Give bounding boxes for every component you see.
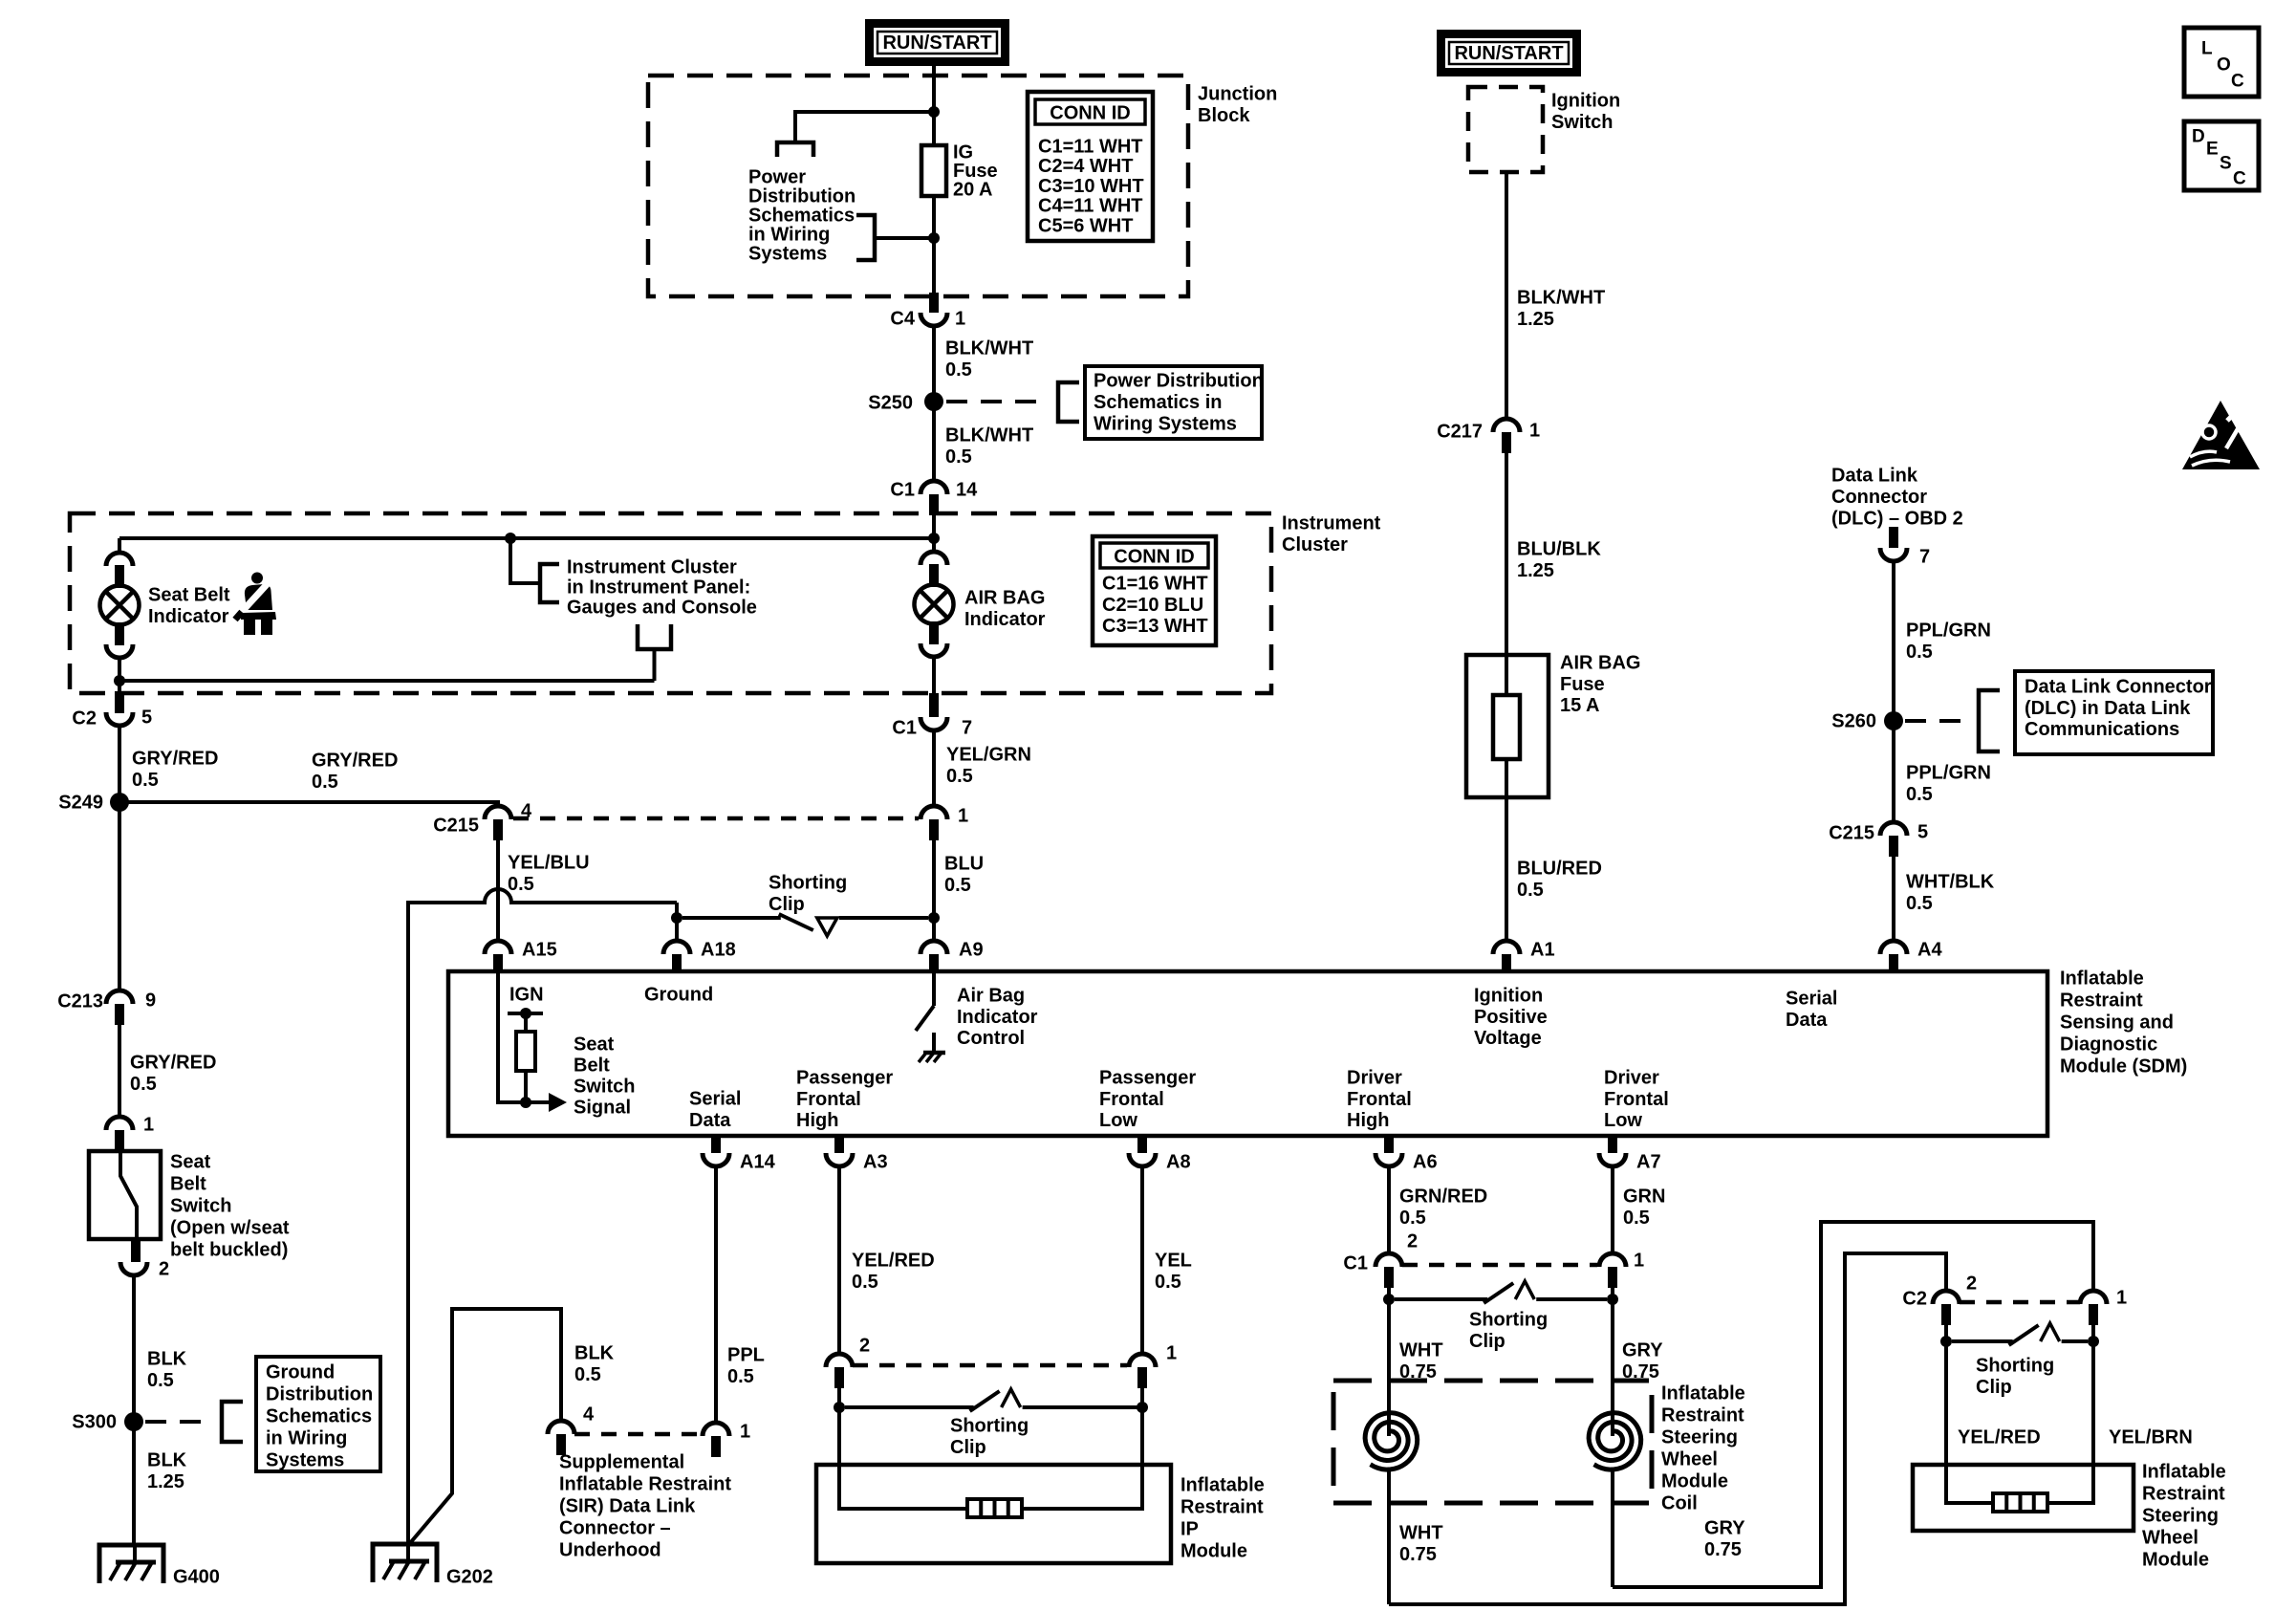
svg-text:WHT/BLK: WHT/BLK bbox=[1906, 872, 1995, 893]
connector C215 pin 1 (air bag lamp circuit) bbox=[921, 806, 947, 819]
shorting clip (wheel module) bbox=[1952, 1339, 2013, 1343]
svg-text:Ignition: Ignition bbox=[1551, 91, 1620, 112]
svg-text:Serial: Serial bbox=[689, 1089, 741, 1110]
svg-text:1: 1 bbox=[1634, 1251, 1644, 1272]
svg-text:1.25: 1.25 bbox=[147, 1471, 184, 1492]
svg-text:Frontal: Frontal bbox=[1347, 1089, 1412, 1110]
svg-text:C2=4 WHT: C2=4 WHT bbox=[1038, 156, 1133, 177]
reference bracket at S260 bbox=[1979, 690, 2000, 751]
svg-text:Systems: Systems bbox=[748, 244, 827, 265]
svg-text:0.5: 0.5 bbox=[944, 875, 971, 896]
node clip junction right (wheel) bbox=[2088, 1336, 2099, 1347]
wire air bag indicator bottom bbox=[932, 657, 936, 693]
svg-text:C215: C215 bbox=[1829, 823, 1874, 844]
svg-text:C2: C2 bbox=[1902, 1289, 1927, 1310]
svg-text:BLU: BLU bbox=[944, 854, 984, 875]
squib (IP module) bbox=[967, 1499, 1022, 1517]
svg-text:C1: C1 bbox=[1343, 1253, 1368, 1274]
svg-text:0.5: 0.5 bbox=[574, 1364, 601, 1385]
svg-text:Fuse: Fuse bbox=[1560, 674, 1605, 695]
wire seat belt indicator bottom to rail bbox=[118, 658, 121, 681]
wire GRN 0.5 (A7 down) bbox=[1611, 1166, 1614, 1253]
dashed reference line from S300 bbox=[145, 1420, 212, 1424]
svg-text:Power Distribution: Power Distribution bbox=[1094, 371, 1264, 392]
svg-text:Indicator: Indicator bbox=[964, 609, 1046, 630]
reference bracket below text (to gauges schematic) bbox=[638, 624, 671, 649]
power label RUN/START (ignition) bbox=[1437, 30, 1581, 76]
svg-text:C1: C1 bbox=[890, 480, 915, 501]
svg-text:5: 5 bbox=[141, 708, 152, 729]
svg-text:Clip: Clip bbox=[769, 894, 805, 915]
svg-text:Frontal: Frontal bbox=[796, 1089, 861, 1110]
svg-text:7: 7 bbox=[1919, 547, 1930, 568]
svg-text:Inflatable: Inflatable bbox=[2142, 1462, 2226, 1483]
svg-text:2: 2 bbox=[1407, 1231, 1418, 1252]
svg-text:BLK: BLK bbox=[147, 1450, 187, 1471]
svg-text:Belt: Belt bbox=[574, 1056, 610, 1077]
connector C1 pin 14 bbox=[921, 481, 947, 494]
svg-text:Voltage: Voltage bbox=[1474, 1028, 1542, 1049]
wire seat belt indicator top bbox=[118, 538, 121, 553]
connector IP module pin 2 bbox=[826, 1354, 853, 1367]
svg-text:Communications: Communications bbox=[2025, 719, 2179, 740]
svg-text:4: 4 bbox=[583, 1404, 595, 1426]
svg-text:Inflatable: Inflatable bbox=[1180, 1475, 1265, 1496]
wire PPL 0.5 (A14 down) bbox=[714, 1166, 718, 1425]
wire pin1 to shorting clip bbox=[1140, 1388, 1144, 1407]
reference bracket (power distribution, top) bbox=[777, 142, 813, 157]
reference bracket (instrument cluster text, left) bbox=[540, 564, 559, 602]
svg-text:Shorting: Shorting bbox=[1469, 1310, 1548, 1331]
connector C213 pin 9 bbox=[106, 991, 133, 1004]
svg-text:Systems: Systems bbox=[266, 1450, 344, 1471]
svg-text:14: 14 bbox=[956, 480, 978, 501]
svg-text:0.5: 0.5 bbox=[1517, 880, 1544, 901]
svg-text:Wheel: Wheel bbox=[2142, 1528, 2199, 1549]
box Power Distribution Schematics in Wiring Systems (S250) bbox=[1085, 366, 1262, 439]
svg-text:G202: G202 bbox=[446, 1567, 493, 1588]
node rail junction at reference tap bbox=[505, 533, 516, 544]
svg-text:A18: A18 bbox=[701, 940, 736, 961]
svg-text:PPL/GRN: PPL/GRN bbox=[1906, 620, 1991, 642]
svg-text:Seat: Seat bbox=[574, 1034, 615, 1056]
shorting clip (IP module) bbox=[845, 1405, 974, 1409]
wire GRY out of coil bbox=[1611, 1470, 1614, 1587]
module Inflatable Restraint Steering Wheel Module box bbox=[1913, 1465, 2134, 1531]
svg-text:Driver: Driver bbox=[1347, 1068, 1402, 1089]
svg-text:Indicator: Indicator bbox=[148, 606, 229, 627]
svg-text:2: 2 bbox=[1966, 1274, 1977, 1295]
svg-text:Inflatable Restraint: Inflatable Restraint bbox=[559, 1474, 731, 1495]
svg-text:C4=11 WHT: C4=11 WHT bbox=[1038, 196, 1142, 217]
svg-text:Clip: Clip bbox=[1469, 1331, 1505, 1352]
svg-text:in Wiring: in Wiring bbox=[266, 1428, 347, 1449]
junction block dashed box bbox=[648, 76, 1188, 296]
svg-text:C: C bbox=[2231, 72, 2244, 92]
wire to clip left (coil) bbox=[1387, 1288, 1391, 1299]
svg-text:Instrument Cluster: Instrument Cluster bbox=[567, 557, 737, 578]
box Data Link Connector (DLC) in Data Link Communications bbox=[2015, 671, 2213, 754]
clockspring coil right bbox=[1589, 1413, 1641, 1469]
connector C215 pin 5 bbox=[1880, 822, 1907, 836]
svg-text:BLK: BLK bbox=[147, 1349, 187, 1370]
svg-text:C5=6 WHT: C5=6 WHT bbox=[1038, 215, 1133, 236]
table CONN ID (instrument cluster) bbox=[1093, 536, 1216, 645]
svg-text:S: S bbox=[2220, 154, 2232, 174]
svg-text:CONN ID: CONN ID bbox=[1050, 103, 1130, 124]
svg-text:Belt: Belt bbox=[170, 1174, 206, 1195]
wire stem from bracket 2 to fuse output bbox=[876, 236, 934, 240]
splice S260 bbox=[1884, 711, 1903, 730]
svg-text:(Open w/seat: (Open w/seat bbox=[170, 1218, 290, 1239]
dashed connector line pin2-pin1 (IP module) bbox=[853, 1363, 1127, 1368]
wire ground run to G202 (horizontal with hump) bbox=[408, 889, 677, 1542]
svg-text:Passenger: Passenger bbox=[1099, 1068, 1196, 1089]
svg-text:0.75: 0.75 bbox=[1704, 1539, 1742, 1560]
svg-text:Ignition: Ignition bbox=[1474, 986, 1543, 1007]
svg-text:Data Link Connector: Data Link Connector bbox=[2025, 677, 2212, 698]
svg-text:YEL/GRN: YEL/GRN bbox=[946, 745, 1031, 766]
node clip junction left (coil) bbox=[1383, 1294, 1395, 1305]
svg-text:A3: A3 bbox=[863, 1152, 888, 1173]
svg-text:Wheel: Wheel bbox=[1661, 1449, 1718, 1470]
svg-text:BLK: BLK bbox=[574, 1343, 615, 1364]
svg-text:Switch: Switch bbox=[1551, 112, 1613, 133]
svg-text:A7: A7 bbox=[1636, 1152, 1661, 1173]
wire into IP module right bbox=[1022, 1407, 1142, 1509]
svg-text:IP: IP bbox=[1180, 1519, 1199, 1540]
svg-text:Passenger: Passenger bbox=[796, 1068, 893, 1089]
wire BLU 0.5 bbox=[932, 840, 936, 941]
wire BLK 0.5 (switch to S300) bbox=[132, 1275, 136, 1422]
svg-text:0.5: 0.5 bbox=[130, 1074, 157, 1095]
wire tap to cluster reference bracket bbox=[510, 538, 540, 583]
svg-text:Distribution: Distribution bbox=[748, 186, 856, 207]
node clip junction right (IP) bbox=[1137, 1402, 1148, 1413]
svg-text:Shorting: Shorting bbox=[950, 1416, 1029, 1437]
wire BLK 0.5 (SIR DLC to G202) bbox=[410, 1309, 561, 1543]
svg-text:Instrument: Instrument bbox=[1282, 513, 1381, 534]
svg-text:1: 1 bbox=[1166, 1343, 1177, 1364]
svg-text:Schematics: Schematics bbox=[748, 206, 855, 227]
wire pin2 to shorting clip bbox=[837, 1388, 841, 1407]
svg-text:S249: S249 bbox=[58, 793, 103, 814]
box Ground Distribution Schematics in Wiring Systems bbox=[256, 1357, 380, 1471]
svg-text:Distribution: Distribution bbox=[266, 1384, 373, 1405]
svg-text:L: L bbox=[2201, 39, 2213, 59]
squib (wheel module) bbox=[1993, 1493, 2047, 1512]
dashed connector line C215 pin4-pin1 bbox=[513, 816, 919, 821]
svg-text:Power: Power bbox=[748, 167, 806, 188]
svg-text:C2: C2 bbox=[72, 708, 97, 729]
svg-text:Supplemental: Supplemental bbox=[559, 1452, 684, 1473]
switch Seat Belt Switch box bbox=[89, 1151, 161, 1239]
svg-text:(DLC) in Data Link: (DLC) in Data Link bbox=[2025, 698, 2191, 719]
icon seat belt person bbox=[235, 573, 276, 636]
svg-text:PPL/GRN: PPL/GRN bbox=[1906, 763, 1991, 784]
splice S300 bbox=[124, 1412, 143, 1431]
svg-text:A14: A14 bbox=[740, 1152, 776, 1173]
module Inflatable Restraint IP Module box bbox=[816, 1465, 1171, 1563]
svg-text:20 A: 20 A bbox=[953, 180, 993, 201]
reference bracket 2 (power distribution, lower) bbox=[856, 215, 875, 260]
svg-text:Steering: Steering bbox=[1661, 1427, 1738, 1448]
svg-text:0.5: 0.5 bbox=[147, 1370, 174, 1391]
connector SIR DLC pin 1 bbox=[703, 1423, 729, 1436]
connector A7 bbox=[1608, 1134, 1617, 1153]
wire GRY 0.75 run to C2 pin 1 bbox=[1613, 1222, 2093, 1587]
svg-text:C1=11 WHT: C1=11 WHT bbox=[1038, 137, 1142, 158]
svg-text:Data Link: Data Link bbox=[1831, 466, 1918, 487]
svg-text:0.5: 0.5 bbox=[1906, 642, 1933, 663]
wire into wheel module left bbox=[1946, 1341, 1993, 1503]
svg-text:Serial: Serial bbox=[1786, 989, 1837, 1010]
svg-text:1: 1 bbox=[740, 1422, 750, 1443]
svg-text:C: C bbox=[2233, 169, 2246, 189]
dashed connector line pin4-pin1 (SIR DLC) bbox=[574, 1432, 703, 1437]
svg-text:GRY/RED: GRY/RED bbox=[132, 749, 218, 770]
lamp Seat Belt Indicator bbox=[106, 553, 133, 566]
svg-text:Driver: Driver bbox=[1604, 1068, 1659, 1089]
node clip junction left (IP) bbox=[834, 1402, 845, 1413]
node clip junction right (coil) bbox=[1607, 1294, 1618, 1305]
splice S250 bbox=[924, 392, 943, 411]
connector C217 pin 1 bbox=[1493, 419, 1520, 432]
svg-text:Restraint: Restraint bbox=[1661, 1405, 1744, 1426]
svg-text:in Instrument Panel:: in Instrument Panel: bbox=[567, 577, 750, 599]
svg-text:Block: Block bbox=[1198, 105, 1250, 126]
wire WHT out of coil bbox=[1387, 1470, 1391, 1604]
shorting clip (coil) bbox=[1395, 1297, 1487, 1301]
svg-text:A9: A9 bbox=[959, 940, 984, 961]
connector A18 bbox=[663, 941, 690, 954]
connector C1 pin 2 (coil) bbox=[1375, 1253, 1402, 1267]
svg-text:High: High bbox=[796, 1110, 838, 1131]
svg-text:GRN/RED: GRN/RED bbox=[1399, 1186, 1487, 1208]
box DESC bbox=[2184, 121, 2259, 190]
wire WHT 0.75 run to C2 pin 2 bbox=[1389, 1253, 1946, 1604]
reference bracket at S300 bbox=[222, 1402, 243, 1442]
connector DLC pin 7 bbox=[1889, 527, 1898, 548]
wire BLU/RED 0.5 bbox=[1505, 797, 1508, 941]
svg-text:1: 1 bbox=[1529, 421, 1540, 442]
svg-text:0.75: 0.75 bbox=[1399, 1544, 1437, 1565]
svg-text:S300: S300 bbox=[72, 1412, 117, 1433]
svg-text:1: 1 bbox=[958, 806, 968, 827]
svg-text:BLU/BLK: BLU/BLK bbox=[1517, 539, 1601, 560]
svg-text:Restraint: Restraint bbox=[2142, 1484, 2225, 1505]
svg-text:Seat Belt: Seat Belt bbox=[148, 585, 230, 606]
connector A8 bbox=[1137, 1134, 1147, 1153]
svg-text:Restraint: Restraint bbox=[1180, 1497, 1264, 1518]
svg-text:7: 7 bbox=[962, 718, 972, 739]
svg-text:2: 2 bbox=[859, 1336, 870, 1357]
svg-text:Clip: Clip bbox=[950, 1437, 986, 1458]
table CONN ID (junction block) bbox=[1028, 92, 1153, 241]
svg-text:Clip: Clip bbox=[1976, 1377, 2012, 1398]
node signal junction bbox=[520, 1097, 531, 1108]
module SDM box (Inflatable Restraint Sensing and Diagnostic Module) bbox=[448, 971, 2047, 1136]
svg-text:BLK/WHT: BLK/WHT bbox=[945, 338, 1033, 359]
node rail junction at air bag indicator bbox=[928, 533, 940, 544]
reference bracket at S250 bbox=[1058, 382, 1079, 422]
node shorting clip left junction (A18) bbox=[671, 912, 682, 924]
svg-text:GRY: GRY bbox=[1622, 1340, 1663, 1361]
svg-text:GRN: GRN bbox=[1623, 1186, 1665, 1208]
svg-text:Module: Module bbox=[1661, 1471, 1728, 1492]
svg-text:Seat: Seat bbox=[170, 1152, 211, 1173]
svg-text:C4: C4 bbox=[890, 309, 915, 330]
svg-text:WHT: WHT bbox=[1399, 1340, 1443, 1361]
connector A6 bbox=[1384, 1134, 1394, 1153]
svg-text:Indicator: Indicator bbox=[957, 1007, 1038, 1028]
svg-text:0.5: 0.5 bbox=[1906, 893, 1933, 914]
wire A15 seat belt switch signal path bbox=[498, 973, 549, 1102]
svg-text:E: E bbox=[2206, 140, 2219, 160]
wire seat belt circuit leaving cluster bbox=[118, 681, 121, 691]
svg-text:S260: S260 bbox=[1831, 711, 1876, 732]
svg-text:A4: A4 bbox=[1917, 940, 1942, 961]
svg-text:Low: Low bbox=[1604, 1110, 1642, 1131]
svg-text:Shorting: Shorting bbox=[769, 873, 847, 894]
svg-text:Module: Module bbox=[2142, 1550, 2209, 1571]
node clip junction left (wheel) bbox=[1940, 1336, 1952, 1347]
svg-text:Inflatable: Inflatable bbox=[2060, 969, 2144, 990]
svg-text:O: O bbox=[2217, 55, 2231, 76]
svg-text:C215: C215 bbox=[433, 816, 479, 837]
svg-text:Signal: Signal bbox=[574, 1098, 631, 1119]
svg-text:RUN/START: RUN/START bbox=[882, 33, 991, 54]
dashed connector line C2 pin2-pin1 bbox=[1960, 1300, 2080, 1305]
node BLU junction with shorting clip line bbox=[928, 912, 940, 924]
svg-text:YEL/BRN: YEL/BRN bbox=[2109, 1427, 2193, 1448]
svg-text:RUN/START: RUN/START bbox=[1454, 43, 1563, 64]
svg-text:C1: C1 bbox=[892, 718, 917, 739]
switch air bag indicator control (internal) bbox=[932, 973, 936, 1006]
connector C1 pin 7 bbox=[929, 693, 939, 717]
svg-text:Data: Data bbox=[1786, 1010, 1828, 1031]
connector A9 bbox=[921, 941, 947, 954]
connector A1 bbox=[1493, 941, 1520, 954]
svg-text:C3=10 WHT: C3=10 WHT bbox=[1038, 176, 1144, 197]
wire into wheel module right bbox=[2047, 1341, 2093, 1503]
svg-text:Low: Low bbox=[1099, 1110, 1137, 1131]
connector A15 bbox=[485, 941, 511, 954]
svg-text:Shorting: Shorting bbox=[1976, 1356, 2054, 1377]
wire GRY/RED to seat belt switch bbox=[118, 1025, 121, 1117]
svg-text:Module (SDM): Module (SDM) bbox=[2060, 1056, 2187, 1078]
svg-text:Positive: Positive bbox=[1474, 1007, 1548, 1028]
wire BLK/WHT 0.5 (S250 to C1) bbox=[932, 409, 936, 481]
svg-text:0.5: 0.5 bbox=[1906, 784, 1933, 805]
wire IG feed vertical (RUN/START to fuse to C4) bbox=[932, 66, 936, 293]
svg-text:YEL: YEL bbox=[1155, 1251, 1192, 1272]
connector C2 pin 1 (wheel module) bbox=[2080, 1291, 2107, 1304]
connector A14 bbox=[711, 1134, 721, 1153]
svg-text:Schematics: Schematics bbox=[266, 1406, 372, 1427]
svg-text:Sensing and: Sensing and bbox=[2060, 1012, 2174, 1034]
connector C215 pin 4 bbox=[485, 806, 511, 819]
connector C1 pin 1 (coil) bbox=[1599, 1253, 1626, 1267]
svg-text:0.5: 0.5 bbox=[132, 770, 159, 791]
connector SIR DLC pin 4 bbox=[548, 1421, 574, 1434]
svg-text:BLU/RED: BLU/RED bbox=[1517, 859, 1602, 880]
node junction above fuse bbox=[928, 106, 940, 118]
wire GRN into coil bbox=[1611, 1299, 1614, 1436]
wire down to A18 bbox=[675, 903, 679, 941]
svg-text:0.5: 0.5 bbox=[312, 772, 338, 793]
svg-text:Diagnostic: Diagnostic bbox=[2060, 1034, 2157, 1056]
wire stem from lower bracket to bottom rail bbox=[653, 649, 657, 681]
svg-text:BLK/WHT: BLK/WHT bbox=[1517, 288, 1605, 309]
splice S249 bbox=[110, 793, 129, 812]
svg-text:1: 1 bbox=[143, 1115, 154, 1136]
svg-text:Inflatable: Inflatable bbox=[1661, 1383, 1745, 1404]
svg-text:A15: A15 bbox=[522, 940, 557, 961]
svg-text:YEL/RED: YEL/RED bbox=[1958, 1427, 2041, 1448]
svg-text:Cluster: Cluster bbox=[1282, 534, 1348, 555]
wire cluster bottom rail bbox=[119, 679, 655, 683]
svg-text:Connector: Connector bbox=[1831, 487, 1927, 508]
svg-text:Control: Control bbox=[957, 1028, 1025, 1049]
svg-text:G400: G400 bbox=[173, 1567, 220, 1588]
svg-text:Switch: Switch bbox=[170, 1196, 231, 1217]
svg-text:IGN: IGN bbox=[509, 985, 544, 1006]
coil dashed box (steering wheel module coil) bbox=[1333, 1381, 1652, 1503]
connector C2 pin 2 (wheel module) bbox=[1933, 1291, 1960, 1304]
svg-text:YEL/RED: YEL/RED bbox=[852, 1251, 935, 1272]
svg-text:(DLC) – OBD 2: (DLC) – OBD 2 bbox=[1831, 509, 1963, 530]
ground G202 bbox=[373, 1544, 437, 1582]
wire GRN/RED 0.5 (A6 down) bbox=[1387, 1166, 1391, 1253]
svg-text:AIR BAG: AIR BAG bbox=[1560, 653, 1640, 674]
dashed reference line from S250 bbox=[946, 400, 1050, 403]
svg-text:AIR BAG: AIR BAG bbox=[964, 588, 1045, 609]
wire into cluster from C1-14 bbox=[932, 515, 936, 538]
wire cluster top rail bbox=[119, 536, 934, 540]
svg-text:Wiring Systems: Wiring Systems bbox=[1094, 414, 1237, 435]
svg-text:C2=10 BLU: C2=10 BLU bbox=[1102, 595, 1203, 616]
wire BLK/WHT 1.25 bbox=[1505, 172, 1508, 419]
svg-text:9: 9 bbox=[145, 991, 156, 1012]
svg-text:0.5: 0.5 bbox=[946, 766, 973, 787]
node junction below fuse bbox=[928, 232, 940, 244]
dashed connector line C1 pin2-pin1 (coil) bbox=[1402, 1263, 1597, 1268]
svg-text:4: 4 bbox=[521, 801, 532, 822]
svg-text:High: High bbox=[1347, 1110, 1389, 1131]
svg-text:Junction: Junction bbox=[1198, 84, 1277, 105]
connector IP module pin 1 bbox=[1129, 1354, 1156, 1367]
svg-text:Steering: Steering bbox=[2142, 1506, 2219, 1527]
svg-text:D: D bbox=[2192, 127, 2205, 147]
svg-text:Ground: Ground bbox=[644, 985, 713, 1006]
svg-text:5: 5 bbox=[1917, 822, 1928, 843]
svg-text:0.5: 0.5 bbox=[508, 874, 534, 895]
ignition switch dashed box bbox=[1468, 87, 1543, 172]
instrument cluster dashed box bbox=[70, 513, 1271, 693]
svg-text:Switch: Switch bbox=[574, 1077, 635, 1098]
svg-text:GRY/RED: GRY/RED bbox=[312, 751, 398, 772]
svg-text:Underhood: Underhood bbox=[559, 1540, 661, 1561]
connector seat belt switch pin 2 bbox=[131, 1239, 141, 1262]
svg-text:GRY: GRY bbox=[1704, 1518, 1745, 1539]
svg-text:(SIR) Data Link: (SIR) Data Link bbox=[559, 1496, 696, 1517]
wire GRY/RED 0.5 (C2 to S249) bbox=[118, 726, 121, 802]
wire GRY/RED branch S249 to C215 bbox=[119, 802, 498, 806]
svg-text:Frontal: Frontal bbox=[1099, 1089, 1164, 1110]
wire pin2 to clip (wheel) bbox=[1944, 1325, 1948, 1341]
shorting clip (air bag indicator) bbox=[682, 916, 781, 920]
